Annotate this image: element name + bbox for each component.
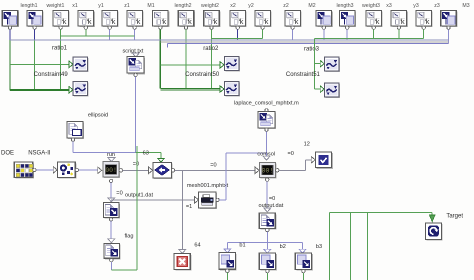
block flag (104, 243, 121, 261)
arrowhead run input (98, 167, 102, 174)
wire NSGA to run (79, 169, 99, 171)
wire ellipsoid to junction (73, 151, 136, 153)
block weight3 (339, 11, 356, 30)
svg-text:=0: =0 (288, 151, 294, 157)
svg-text:k: k (265, 17, 269, 26)
wire from x3 (373, 29, 375, 38)
block length1 (2, 11, 19, 30)
svg-text:k: k (112, 17, 116, 26)
wire flag bottom (110, 262, 112, 270)
wire output1 to flag (110, 221, 112, 239)
arrowhead mesh input (195, 197, 199, 204)
wire into Constraint51 upper (315, 63, 321, 65)
block run (103, 162, 123, 183)
arrowhead Constraint50 upper (220, 62, 224, 69)
svg-text:Constraint51: Constraint51 (286, 72, 321, 78)
block Constraint50 upper (224, 57, 240, 72)
block Constraint50 lower (224, 82, 240, 97)
svg-text:00!: 00! (105, 167, 117, 174)
svg-text:k: k (376, 17, 380, 26)
wire from y3 (398, 29, 400, 38)
wire below file1 (226, 273, 228, 280)
wire into Constraint49 lower (double) (10, 88, 70, 90)
wire run to diamond (123, 169, 150, 171)
marker triangle run (108, 158, 115, 162)
wire DOE to NSGA (36, 169, 54, 171)
block Constraint51 upper (324, 57, 340, 72)
svg-text:y3: y3 (413, 3, 419, 9)
arrow into target (429, 215, 435, 222)
wire slate bus (10, 39, 449, 41)
wire from M2 (292, 29, 294, 40)
svg-text:M1: M1 (147, 3, 154, 9)
svg-text:x2: x2 (230, 3, 236, 9)
svg-text:Target: Target (446, 214, 463, 220)
wire output1 junction to mesh (111, 199, 196, 201)
block weight1 (27, 11, 44, 30)
wire ratio3 drop (314, 38, 316, 89)
wire laplace to consol (266, 131, 268, 156)
wire from length2 (159, 29, 161, 88)
wire green riser 3 (367, 213, 369, 280)
svg-text:ratio1: ratio1 (52, 45, 68, 51)
arrowhead Constraint51 upper (320, 60, 324, 66)
wire from z3 (423, 29, 425, 38)
block stop red X (174, 254, 191, 271)
svg-text:12: 12 (304, 142, 310, 148)
wire from M1 (134, 29, 136, 40)
svg-text:z1: z1 (124, 3, 130, 9)
svg-text:k: k (162, 17, 166, 26)
svg-text:y1: y1 (98, 3, 104, 9)
block file3 (295, 253, 313, 273)
wire into Constraint50 upper (160, 64, 220, 66)
block checkbox (315, 152, 333, 169)
wire from M3 (448, 29, 450, 43)
arrow into diamond top (158, 158, 164, 162)
block length2 (153, 11, 170, 30)
svg-text:k: k (137, 17, 141, 26)
svg-text:64: 64 (194, 243, 200, 249)
block z1 (102, 11, 119, 30)
svg-text:=1: =1 (186, 204, 192, 210)
marker triangle script (132, 53, 139, 57)
wire into Constraint49 upper (10, 63, 70, 65)
svg-text:k: k (295, 17, 299, 26)
wire blue bus (167, 42, 448, 44)
wire from length3 (323, 29, 325, 40)
svg-text:k: k (426, 17, 430, 26)
wire consol to output.dat (266, 181, 268, 208)
arrowhead Constraint50 lower (220, 86, 224, 93)
block output1.dat (103, 203, 120, 221)
svg-text:length2: length2 (174, 3, 191, 9)
arrowhead diamond input (149, 167, 153, 174)
block M2 (285, 11, 302, 30)
block z2 (255, 11, 272, 30)
marker triangle consol (263, 156, 270, 160)
svg-text:NSGA-II: NSGA-II (28, 151, 51, 157)
wire from z2 (262, 29, 264, 38)
svg-text:k: k (401, 17, 405, 26)
block NSGA-II (57, 162, 78, 178)
svg-text:output1.dat: output1.dat (125, 192, 153, 198)
svg-text:x1: x1 (72, 3, 78, 9)
wire green riser 1 (329, 213, 331, 280)
svg-text:63: 63 (143, 151, 149, 157)
block file1 (219, 253, 237, 273)
block consol (259, 162, 279, 181)
wire drop b3 (302, 243, 304, 250)
svg-text:z2: z2 (283, 3, 289, 9)
wire distribution bus (227, 242, 302, 244)
wire junction to diamond (136, 151, 161, 153)
svg-text:Constraint50: Constraint50 (185, 72, 220, 78)
wire from z1 (109, 29, 111, 40)
wire from y2 (237, 29, 239, 40)
arrowhead Constraint49 upper (69, 61, 73, 68)
wire branch down to stop (181, 170, 183, 249)
svg-text:M2: M2 (308, 3, 315, 9)
wire green bus group1 (61, 35, 135, 37)
svg-text:ellipsoid: ellipsoid (88, 112, 108, 118)
wire drop b2 (266, 243, 268, 250)
wire into Constraint50 lower (160, 88, 220, 90)
wire from y1 (85, 29, 87, 36)
wire output.dat down (266, 232, 268, 243)
wire gray bus (160, 41, 448, 43)
wire run to output1 (110, 183, 112, 198)
svg-text:DOE: DOE (1, 151, 14, 157)
arrowhead NSGA input (53, 167, 57, 174)
svg-text:flag: flag (124, 234, 133, 240)
wire ellipsoid down (72, 141, 74, 152)
svg-text:ratio3: ratio3 (304, 47, 320, 53)
svg-text:=0: =0 (210, 162, 216, 168)
svg-text:z3: z3 (434, 3, 440, 9)
wire into Constraint51 lower (315, 88, 321, 90)
wire blue bus left stub (166, 43, 168, 47)
block y2 (230, 11, 247, 30)
wire green bus group2 ratio2 (212, 37, 263, 39)
svg-text:laplace_comsol_mphtxt.m: laplace_comsol_mphtxt.m (234, 100, 299, 106)
block output.dat (259, 213, 276, 232)
block z3 (416, 11, 433, 30)
wire flag loop (111, 269, 137, 271)
block DOE (14, 162, 36, 178)
svg-text:k: k (213, 17, 217, 26)
svg-text:y2: y2 (248, 3, 254, 9)
block ellipsoid (67, 121, 84, 141)
block solver diamond (153, 162, 175, 179)
svg-text:b2: b2 (280, 244, 286, 250)
svg-text:k: k (63, 17, 67, 26)
marker triangle file2 (264, 249, 271, 253)
svg-text:k: k (88, 17, 92, 26)
svg-text:ratio2: ratio2 (203, 46, 219, 52)
svg-text:weight2: weight2 (201, 3, 219, 9)
wire to target (330, 212, 433, 214)
wire green bus group3 ratio3 (315, 37, 424, 39)
marker triangle file1 (224, 249, 231, 253)
block x3 (366, 11, 383, 30)
wire green riser 2 (349, 213, 351, 280)
wire from length1 upper (9, 29, 11, 40)
marker triangle output1 (108, 198, 115, 202)
svg-text:00!: 00! (262, 168, 274, 175)
svg-text:length1: length1 (20, 3, 37, 9)
svg-text:=0: =0 (269, 196, 275, 202)
block y1 (78, 11, 95, 30)
block file2 (259, 253, 277, 273)
arrowhead consol input (255, 167, 259, 174)
svg-text:=0: =0 (116, 190, 122, 196)
svg-text:length3: length3 (336, 3, 353, 9)
block Constraint51 lower (324, 83, 340, 98)
wire from length1 (9, 40, 11, 91)
wire from x2 (211, 29, 213, 88)
wire below file3 (302, 273, 304, 280)
block mesh001.mphtxt (199, 192, 220, 209)
svg-text:x3: x3 (386, 3, 392, 9)
block M3 (441, 11, 458, 30)
wire diamond to consol (175, 169, 256, 171)
wire script output down (135, 77, 137, 153)
block y3 (391, 11, 408, 30)
wire from weight1 (34, 40, 36, 89)
wire from weight3 (346, 29, 348, 40)
block weight2 (178, 11, 195, 30)
arrowhead Constraint51 lower (320, 86, 324, 93)
svg-text:M3: M3 (462, 3, 469, 9)
svg-text:mesh001.mphtxt: mesh001.mphtxt (187, 183, 229, 189)
svg-text:k: k (188, 17, 192, 26)
marker triangle output.dat (264, 208, 271, 212)
block M1 (127, 11, 144, 30)
svg-text:weight3: weight3 (362, 3, 380, 9)
block Constraint49 upper (73, 57, 89, 72)
svg-text:b3: b3 (316, 244, 322, 250)
wire below file2 (266, 273, 268, 280)
marker triangle flag (108, 239, 115, 243)
marker triangle file3 (299, 249, 306, 253)
block x1 (53, 11, 70, 30)
wire from weight1 upper (34, 29, 36, 40)
arrowhead checkbox input (311, 157, 315, 164)
svg-text:Constraint49: Constraint49 (34, 72, 69, 78)
block laplace script (258, 109, 276, 132)
wire mesh up to consol (219, 199, 226, 201)
svg-text:b1: b1 (239, 243, 245, 249)
wire consol to checkbox (279, 169, 306, 171)
block Target (426, 223, 443, 241)
block x2 (204, 11, 221, 30)
wire from x1 (60, 29, 62, 89)
wire from weight2 (185, 29, 187, 88)
block Constraint49 lower (73, 82, 89, 97)
wire drop b1 (226, 243, 228, 249)
svg-text:k: k (240, 17, 244, 26)
svg-text:=0: =0 (133, 162, 139, 168)
svg-text:weight1: weight1 (47, 3, 65, 9)
block script.txt (127, 57, 145, 77)
block length3 (316, 11, 333, 30)
arrowhead Constraint49 lower (69, 87, 73, 94)
marker triangle stop (179, 249, 186, 253)
